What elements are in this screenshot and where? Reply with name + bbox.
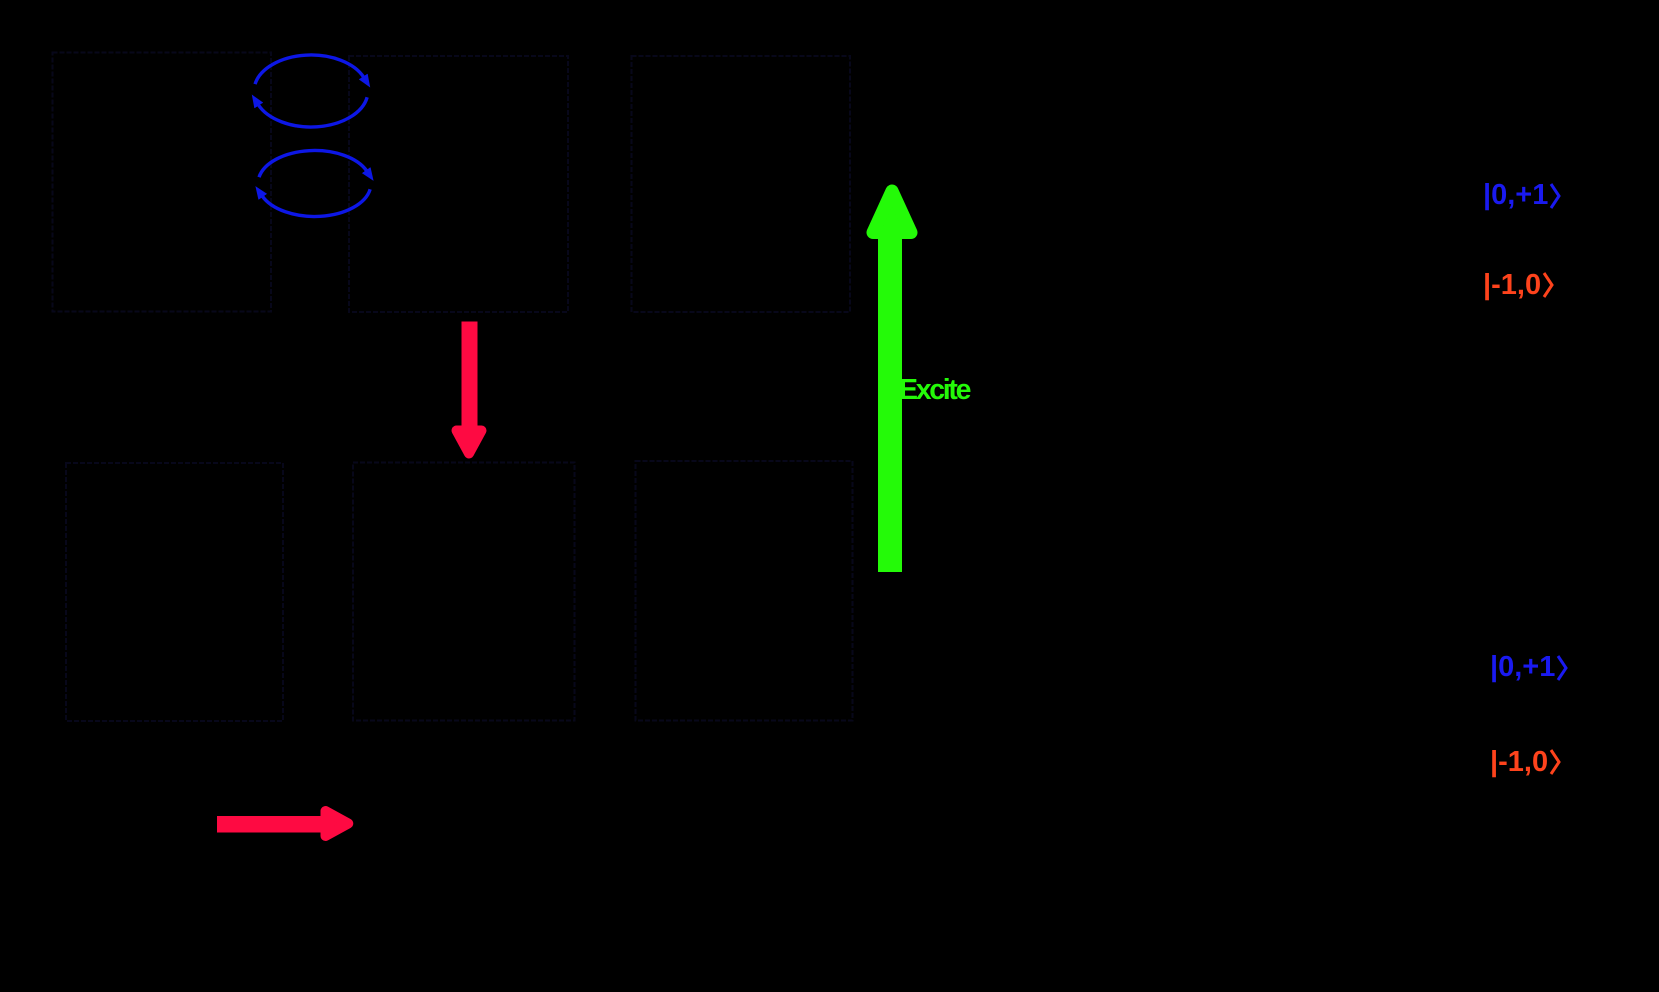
green up arrow head xyxy=(873,191,911,233)
dashed box top-3 xyxy=(632,56,851,312)
red right arrow shaft xyxy=(217,816,321,833)
svg-text:|0,+1: |0,+1 xyxy=(1490,651,1555,683)
svg-text:|-1,0: |-1,0 xyxy=(1483,269,1541,301)
dashed box top-2 xyxy=(349,56,568,312)
svg-text:|-1,0: |-1,0 xyxy=(1490,746,1548,778)
dashed box bottom-2 xyxy=(353,463,575,721)
cycle arcs lower pair: bottom arc xyxy=(262,189,370,216)
dashed box bottom-1 xyxy=(66,463,283,721)
svg-text:Excite: Excite xyxy=(899,374,971,406)
svg-text:|0,+1: |0,+1 xyxy=(1483,179,1548,211)
cycle arcs upper pair: top arc xyxy=(255,55,364,84)
red down arrow head xyxy=(457,431,482,454)
red right arrow head xyxy=(326,811,349,836)
cycle arcs lower pair: top arc xyxy=(259,150,367,177)
cycle arcs upper pair: bottom arc xyxy=(258,97,367,127)
red down arrow shaft xyxy=(462,322,478,429)
dashed box bottom-3 xyxy=(636,461,853,721)
dashed box top-1 xyxy=(53,53,272,312)
green up arrow shaft xyxy=(878,232,902,572)
